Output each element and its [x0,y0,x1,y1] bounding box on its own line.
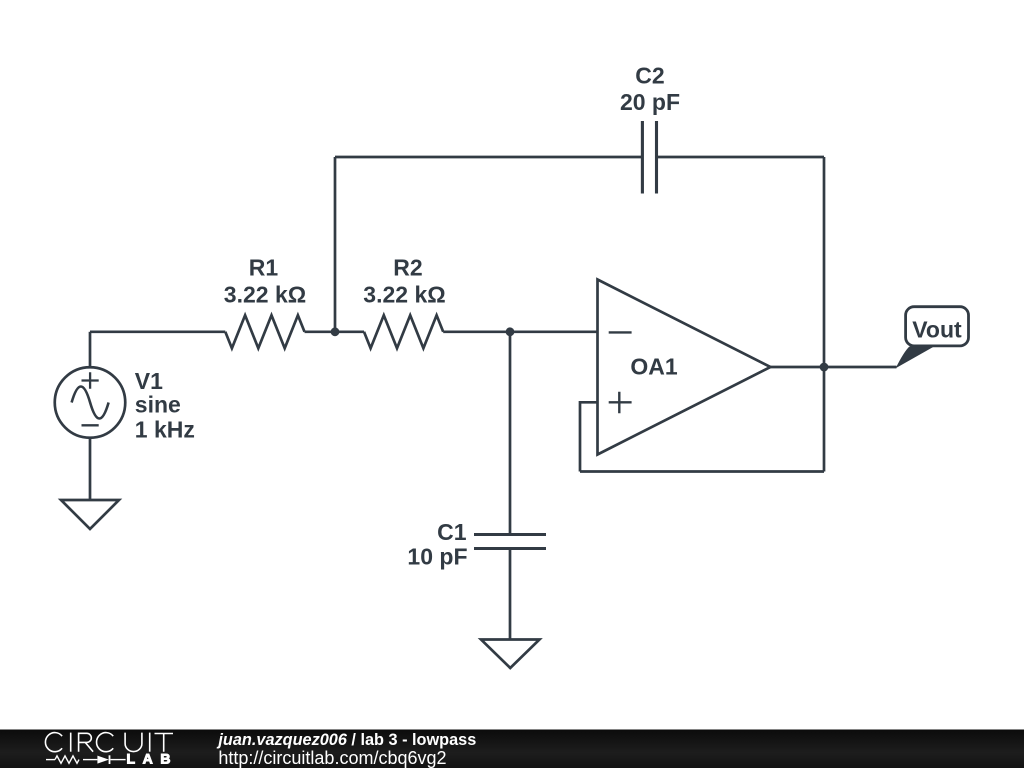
node B junction dot [506,327,515,336]
svg-text:C2: C2 [635,63,664,89]
svg-text:OA1: OA1 [630,354,678,380]
wire R1 to node A [305,330,336,333]
svg-text:V1: V1 [135,368,163,394]
svg-text:juan.vazquez006 / lab 3 - lowp: juan.vazquez006 / lab 3 - lowpass [216,731,476,749]
capacitor C2 plates [642,121,656,194]
logo resistor lead [46,759,55,761]
footer bar [0,730,1024,768]
svg-text:R2: R2 [393,254,422,280]
node A junction dot [331,327,340,336]
ground for V1 [61,500,119,529]
svg-text:R1: R1 [249,254,279,280]
wire feedback bottom [580,470,824,473]
output node junction dot [820,363,829,372]
op-amp plus sign [609,392,632,414]
wire op-amp noninverting feedback [580,402,598,471]
resistor R2 zigzag [364,315,443,348]
logo letter C [45,733,62,752]
wire V1 to R1 [90,330,225,333]
capacitor C1 plates [474,535,546,549]
logo resistor zigzag [55,756,79,763]
logo diode cathode bar [109,755,111,764]
logo letter I2 [149,733,151,752]
svg-text:http://circuitlab.com/cbq6vg2: http://circuitlab.com/cbq6vg2 [218,748,446,768]
wire node B down to C1 [509,332,512,535]
wire node B to op-amp inverting input [510,330,598,333]
logo letter I [70,733,72,752]
svg-text:3.22 kΩ: 3.22 kΩ [224,282,306,308]
Vout flag box [906,307,969,346]
op-amp U1 triangle [598,280,771,455]
svg-text:Vout: Vout [912,317,962,343]
op-amp minus sign [609,331,632,333]
wire node A to R2 [335,330,364,333]
V1 plus sign [82,372,99,389]
svg-text:LAB: LAB [127,751,173,767]
svg-text:20 pF: 20 pF [620,89,680,115]
svg-text:3.22 kΩ: 3.22 kΩ [363,282,445,308]
svg-text:C1: C1 [437,519,467,545]
wire R2 to node B [443,330,510,333]
wire op-amp output [771,366,897,369]
V1 sine symbol [72,387,109,419]
logo letter C2 [97,733,114,752]
logo letter R [79,733,94,751]
svg-text:1 kHz: 1 kHz [135,417,195,443]
logo letter U [125,733,142,752]
wire node A up to feedback [334,157,337,332]
wire C1 to ground [509,549,512,640]
Vout flag pointer [896,347,934,369]
V1 minus sign [82,424,99,426]
logo letter T [155,734,174,752]
svg-text:sine: sine [135,392,181,418]
logo wire after diode [110,759,125,761]
ground for C1 [481,640,540,669]
wire feedback top right [657,156,825,159]
wire feedback top left [335,156,642,159]
voltage source V1 circle [55,367,126,438]
svg-text:10 pF: 10 pF [407,544,467,570]
logo diode triangle [97,756,109,764]
wire V1 bottom lead [89,438,92,500]
resistor R1 zigzag [225,315,304,348]
logo wire to diode [83,759,97,761]
wire V1 top lead [89,332,92,368]
wire feedback right vertical [823,157,826,472]
